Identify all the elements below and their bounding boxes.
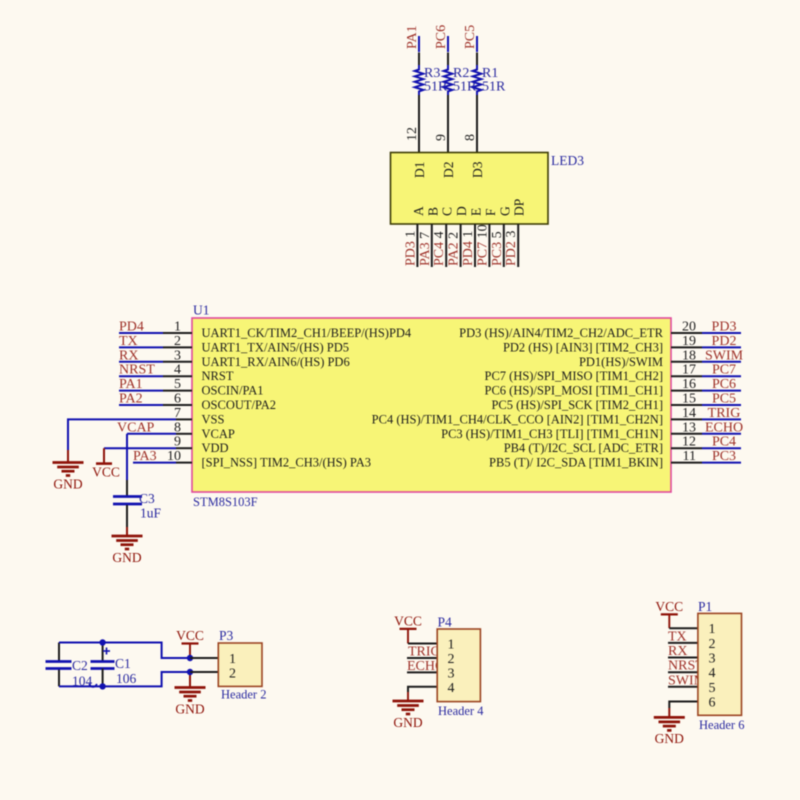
svg-text:1: 1 — [448, 638, 455, 653]
pin 5 stub — [163, 390, 192, 392]
svg-text:3: 3 — [709, 652, 716, 667]
svg-text:RX: RX — [119, 348, 138, 363]
wire net PC7 — [702, 375, 741, 377]
svg-text:106: 106 — [116, 671, 137, 686]
svg-text:D3: D3 — [470, 161, 485, 178]
wire LED3 pin 3 net PD2 — [517, 224, 519, 267]
wire net NRST — [668, 671, 698, 673]
svg-text:GND: GND — [655, 731, 684, 746]
svg-text:PD3 1: PD3 1 — [403, 231, 418, 266]
wire net PC4 — [702, 447, 741, 449]
wire net PC6 — [447, 36, 449, 52]
svg-text:Header 2: Header 2 — [221, 688, 266, 702]
wire LED3 pin 4 net PC4 — [445, 224, 447, 267]
wire LED3 pin 1 net PD4 — [474, 224, 476, 267]
svg-text:PA3: PA3 — [133, 449, 157, 464]
pin 20 stub — [671, 332, 702, 334]
svg-text:VCAP: VCAP — [117, 420, 155, 435]
pin 9 stub — [176, 447, 192, 449]
wire VCC to P3 pin 1 — [190, 657, 218, 659]
svg-text:GND: GND — [112, 550, 141, 565]
ground stem — [67, 450, 69, 463]
svg-text:GND: GND — [53, 476, 82, 491]
svg-text:PD2: PD2 — [712, 334, 737, 349]
svg-text:D2: D2 — [441, 162, 456, 179]
svg-text:PD2 (HS) [AIN3] [TIM2_CH3]: PD2 (HS) [AIN3] [TIM2_CH3] — [503, 340, 663, 354]
pin 11 stub — [671, 462, 702, 464]
wire net PC3 — [702, 462, 741, 464]
capacitor C2 104 — [46, 660, 72, 663]
pin 14 stub — [671, 418, 702, 420]
svg-text:PD3: PD3 — [712, 320, 737, 335]
svg-text:RX: RX — [668, 644, 687, 659]
svg-text:TX: TX — [668, 629, 687, 644]
svg-text:P4: P4 — [438, 615, 453, 630]
svg-text:PC5: PC5 — [712, 392, 736, 407]
wire net ECHO — [702, 433, 741, 435]
svg-text:PA1: PA1 — [119, 377, 143, 392]
C2 bottom pin — [58, 669, 60, 687]
C2 top pin — [58, 643, 60, 662]
svg-text:VCC: VCC — [92, 465, 120, 480]
header P1 body — [698, 613, 742, 715]
svg-text:4: 4 — [709, 666, 716, 681]
junction — [187, 669, 193, 675]
svg-text:VCC: VCC — [394, 614, 422, 629]
pin 4 stub — [163, 375, 192, 377]
svg-text:PC6: PC6 — [434, 25, 449, 49]
wire resistor to LED3 pin 9 — [447, 95, 449, 153]
svg-text:1: 1 — [709, 622, 716, 637]
svg-text:UART1_TX/AIN5/(HS) PD5: UART1_TX/AIN5/(HS) PD5 — [202, 340, 350, 354]
svg-text:NRST: NRST — [119, 363, 155, 378]
svg-text:C2: C2 — [72, 658, 88, 673]
power port VCC (P4) — [400, 628, 417, 630]
wire to resistor R3 — [418, 53, 420, 66]
svg-text:D: D — [454, 206, 469, 216]
svg-text:VCC: VCC — [176, 628, 204, 643]
svg-text:PC3: PC3 — [712, 449, 736, 464]
MCU U1 body — [192, 318, 671, 492]
svg-text:B: B — [425, 207, 440, 216]
wire net PA2 — [119, 404, 163, 406]
ground stem (P3) — [189, 672, 191, 688]
wire VCAP down to C3 — [126, 434, 128, 480]
svg-text:PA3 7: PA3 7 — [418, 232, 433, 266]
pin 13 stub — [671, 433, 702, 435]
wire net RX — [119, 361, 163, 363]
C1 branch top pin — [102, 643, 104, 662]
wire net PC5 — [702, 404, 741, 406]
svg-text:P1: P1 — [698, 599, 712, 614]
pin 2 stub — [163, 346, 192, 348]
C3 bottom pin — [126, 505, 128, 527]
svg-text:PA1: PA1 — [405, 25, 420, 49]
wire P4 pin 4 to ground — [408, 687, 437, 692]
pin 12 stub — [671, 447, 702, 449]
wire to resistor R1 — [476, 53, 478, 66]
ground (C3) — [112, 535, 143, 538]
wire to resistor R2 — [447, 53, 449, 66]
7-segment display LED3 body — [391, 153, 549, 225]
svg-text:P3: P3 — [219, 628, 234, 643]
wire net PA1 — [119, 390, 163, 392]
ground stem — [126, 527, 128, 536]
wire resistor to LED3 pin 8 — [476, 95, 478, 153]
svg-text:UART1_RX/AIN6/(HS) PD6: UART1_RX/AIN6/(HS) PD6 — [202, 355, 350, 369]
power port VCC (P3) — [182, 642, 199, 644]
wire LED3 pin 2 net PA2 — [460, 224, 462, 267]
pin 8 stub — [176, 433, 192, 435]
wire VCC to P4 pin 1 — [408, 643, 437, 645]
svg-text:C1: C1 — [115, 656, 131, 671]
pin 18 stub — [671, 361, 702, 363]
wire LED3 pin 1 net PD3 — [416, 224, 418, 267]
wire bottom rail — [59, 672, 190, 686]
svg-text:DP: DP — [512, 199, 527, 216]
pin 7 stub — [176, 418, 192, 420]
ground (P4) — [393, 700, 424, 703]
resistor R2 51R — [444, 65, 453, 95]
svg-text:4: 4 — [448, 681, 455, 696]
header P3 body — [218, 643, 262, 686]
ground (P3) — [175, 686, 206, 689]
svg-text:LED3: LED3 — [551, 153, 584, 168]
svg-text:PD1(HS)/SWIM: PD1(HS)/SWIM — [579, 355, 663, 369]
wire net PD4 — [119, 332, 163, 334]
svg-text:PC4 4: PC4 4 — [432, 231, 447, 266]
svg-text:ECHO: ECHO — [705, 420, 743, 435]
wire net TRIG — [702, 418, 741, 420]
wire VSS to ground — [68, 419, 176, 450]
svg-text:VDD: VDD — [202, 441, 229, 455]
wire net TX — [668, 642, 698, 644]
wire net PC5 — [476, 36, 478, 52]
pin 17 stub — [671, 375, 702, 377]
resistor R1 51R — [473, 65, 482, 95]
svg-text:[SPI_NSS] TIM2_CH3/(HS) PA3: [SPI_NSS] TIM2_CH3/(HS) PA3 — [202, 456, 371, 470]
svg-text:PD4 1: PD4 1 — [461, 231, 476, 266]
svg-text:2: 2 — [229, 667, 236, 682]
svg-text:E: E — [469, 208, 484, 216]
pin 1 stub — [163, 332, 192, 334]
svg-text:5: 5 — [709, 681, 716, 696]
svg-text:OSCIN/PA1: OSCIN/PA1 — [202, 384, 264, 398]
svg-text:PC7 (HS)/SPI_MISO [TIM1_CH2]: PC7 (HS)/SPI_MISO [TIM1_CH2] — [485, 369, 664, 383]
capacitor C1 106 (polarized) — [91, 660, 115, 663]
ground (P1) — [654, 716, 685, 719]
wire GND to P3 pin 2 — [190, 671, 218, 673]
svg-text:51R: 51R — [482, 80, 506, 95]
svg-text:PC3 5: PC3 5 — [490, 231, 505, 266]
C3 top pin — [126, 480, 128, 496]
svg-text:PC5 (HS)/SPI_SCK [TIM2_CH1]: PC5 (HS)/SPI_SCK [TIM2_CH1] — [491, 398, 663, 412]
svg-text:PC7: PC7 — [712, 363, 736, 378]
svg-text:VSS: VSS — [202, 412, 225, 426]
svg-text:VCC: VCC — [655, 599, 683, 614]
junction — [187, 655, 193, 661]
svg-text:Header 6: Header 6 — [699, 718, 744, 732]
svg-text:PD4: PD4 — [119, 320, 144, 335]
junction — [99, 683, 105, 689]
svg-text:STM8S103F: STM8S103F — [193, 495, 258, 509]
svg-text:C: C — [440, 207, 455, 216]
svg-text:3: 3 — [448, 666, 455, 681]
polarity arc — [89, 684, 97, 687]
junction — [99, 639, 105, 645]
wire net RX — [668, 657, 698, 659]
header P4 body — [437, 629, 480, 702]
pin 15 stub — [671, 404, 702, 406]
svg-text:PA2 2: PA2 2 — [447, 232, 462, 266]
svg-text:NRST: NRST — [202, 369, 234, 383]
wire net NRST — [119, 375, 163, 377]
wire VCC to P1 pin 1 — [669, 627, 698, 629]
svg-text:PC4 (HS)/TIM1_CH4/CLK_CCO [AIN: PC4 (HS)/TIM1_CH4/CLK_CCO [AIN2] [TIM1_C… — [372, 412, 663, 426]
wire LED3 pin 5 net PC3 — [503, 224, 505, 267]
svg-text:G: G — [497, 206, 512, 216]
svg-text:SWIM: SWIM — [705, 348, 744, 363]
svg-text:PA2: PA2 — [119, 392, 143, 407]
wire net SWIM — [702, 361, 741, 363]
svg-text:104: 104 — [72, 674, 93, 689]
power port VCC (P1) — [661, 613, 678, 615]
svg-text:VCAP: VCAP — [202, 427, 235, 441]
wire net VCAP — [127, 433, 176, 435]
svg-text:D1: D1 — [412, 162, 427, 179]
svg-text:1uF: 1uF — [140, 506, 162, 521]
wire LED3 pin 10 net PC7 — [488, 224, 490, 267]
wire net PD2 — [702, 346, 741, 348]
wire P1 pin 6 to ground — [669, 702, 698, 709]
wire net ECHO — [407, 671, 437, 673]
svg-text:UART1_CK/TIM2_CH1/BEEP/(HS)PD4: UART1_CK/TIM2_CH1/BEEP/(HS)PD4 — [202, 326, 412, 340]
pin 16 stub — [671, 390, 702, 392]
svg-text:Header 4: Header 4 — [438, 704, 484, 718]
svg-text:TX: TX — [119, 334, 138, 349]
wire net PC6 — [702, 390, 741, 392]
svg-text:TRIG: TRIG — [708, 406, 741, 421]
wire resistor to LED3 pin 12 — [418, 95, 420, 153]
resistor R3 51R — [415, 65, 424, 95]
svg-text:U1: U1 — [193, 303, 210, 318]
svg-text:PC3 (HS)/TIM1_CH3 [TLI] [TIM1_: PC3 (HS)/TIM1_CH3 [TLI] [TIM1_CH1N] — [441, 427, 663, 441]
svg-text:PB5 (T)/ I2C_SDA [TIM1_BKIN]: PB5 (T)/ I2C_SDA [TIM1_BKIN] — [489, 456, 663, 470]
wire net PA1 — [418, 36, 420, 52]
svg-text:PC5: PC5 — [463, 25, 478, 49]
pin 19 stub — [671, 346, 702, 348]
pin 6 stub — [163, 404, 192, 406]
ground stem (P1) — [668, 708, 670, 717]
svg-text:PD2 3: PD2 3 — [504, 231, 519, 266]
pin 3 stub — [163, 361, 192, 363]
svg-text:12: 12 — [405, 127, 420, 141]
C1 bottom pin — [102, 669, 104, 687]
wire top rail — [59, 643, 190, 659]
capacitor C3 1uF — [113, 495, 142, 498]
svg-text:A: A — [411, 206, 426, 216]
svg-text:2: 2 — [448, 652, 455, 667]
wire net TX — [119, 346, 163, 348]
power port VCC (pin 9) — [96, 462, 112, 465]
wire VDD to VCC — [104, 447, 176, 449]
svg-text:1: 1 — [229, 652, 236, 667]
svg-text:PC6: PC6 — [712, 377, 736, 392]
svg-text:F: F — [483, 208, 498, 216]
svg-text:PC7 10: PC7 10 — [475, 224, 490, 266]
svg-text:2: 2 — [709, 637, 716, 652]
svg-text:PC4: PC4 — [712, 435, 736, 450]
svg-text:C3: C3 — [139, 491, 155, 506]
svg-text:PB4 (T)/I2C_SCL [ADC_ETR]: PB4 (T)/I2C_SCL [ADC_ETR] — [504, 441, 663, 455]
wire LED3 pin 7 net PA3 — [431, 224, 433, 267]
svg-text:OSCOUT/PA2: OSCOUT/PA2 — [202, 398, 277, 412]
wire net TRIG — [407, 657, 437, 659]
pin 10 stub — [176, 462, 192, 464]
wire net PA3 — [133, 462, 176, 464]
svg-text:TRIG: TRIG — [408, 645, 441, 660]
svg-text:GND: GND — [393, 715, 422, 730]
svg-text:9: 9 — [434, 134, 449, 141]
svg-text:8: 8 — [463, 134, 478, 141]
ground stem (P4) — [407, 692, 409, 701]
svg-text:6: 6 — [709, 696, 716, 711]
svg-text:PD3 (HS)/AIN4/TIM2_CH2/ADC_ETR: PD3 (HS)/AIN4/TIM2_CH2/ADC_ETR — [459, 326, 663, 340]
ground (VSS) — [53, 461, 84, 464]
wire net PD3 — [702, 332, 741, 334]
svg-text:PC6 (HS)/SPI_MOSI [TIM1_CH1]: PC6 (HS)/SPI_MOSI [TIM1_CH1] — [485, 384, 664, 398]
svg-text:GND: GND — [175, 701, 204, 716]
wire net SWIM — [668, 686, 698, 688]
